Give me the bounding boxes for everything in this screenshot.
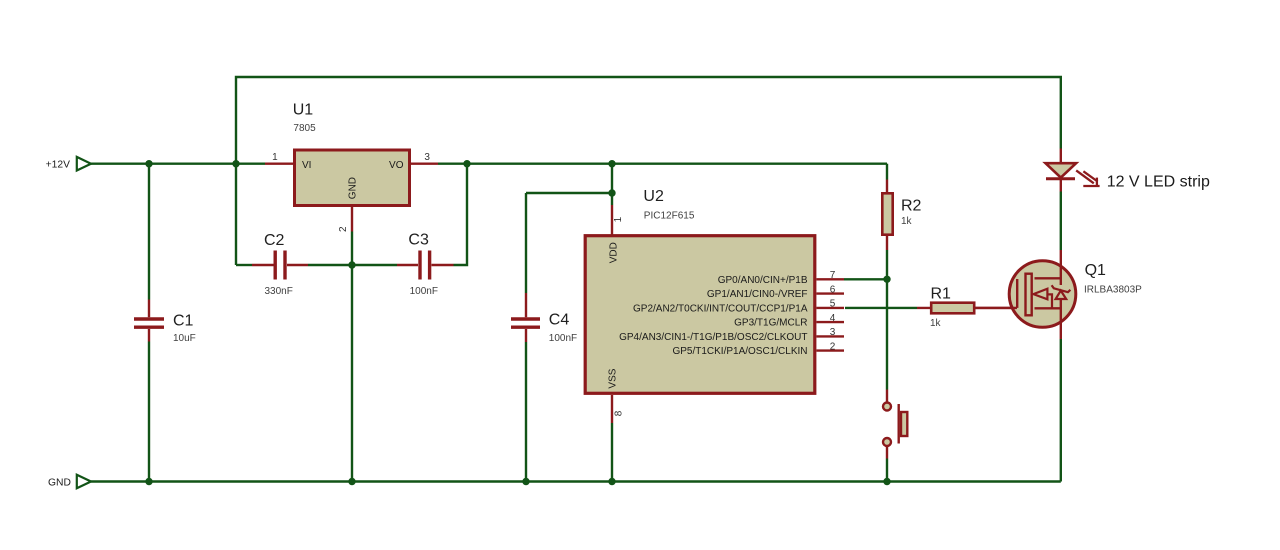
wire Q1 source to ground rail	[1060, 339, 1062, 482]
svg-text:GND: GND	[348, 177, 359, 199]
svg-text:VO: VO	[389, 160, 404, 171]
svg-text:1: 1	[613, 216, 624, 222]
node junction +12V x C1	[145, 160, 152, 167]
regulator U1 body	[295, 150, 410, 206]
wire top rail from left vertical to LED drop	[236, 77, 1061, 265]
wire GP2 to R1	[845, 307, 917, 309]
svg-text:2: 2	[830, 341, 836, 352]
pin U2.3 GP4	[817, 335, 845, 337]
node junction gnd rail x VSS	[608, 478, 615, 485]
wire ground rail	[91, 480, 1061, 482]
pin U2.8 VSS	[611, 395, 613, 423]
svg-text:3: 3	[424, 152, 430, 163]
svg-text:VSS: VSS	[608, 368, 619, 388]
wire C1 bottom	[148, 342, 150, 482]
terminal GND	[77, 475, 91, 489]
wire R2 bottom to node	[886, 250, 888, 279]
node junction VDD x C4	[608, 189, 615, 196]
led D1	[1046, 163, 1077, 191]
wire +12V rail	[91, 162, 265, 164]
svg-text:Q1: Q1	[1085, 262, 1106, 279]
wire GP0 to R2 node	[844, 278, 887, 280]
pin U1.3 VO	[411, 162, 438, 164]
svg-text:GND: GND	[48, 478, 71, 489]
node junction gnd rail x C4	[522, 478, 529, 485]
pin U2.5 GP2	[817, 307, 845, 309]
wire C1 top	[148, 164, 150, 300]
wire C2 to gnd-pin node	[308, 264, 352, 266]
wire 5V right vertical down to C3 row	[454, 164, 468, 265]
pin U1.2 GND	[351, 207, 353, 232]
pin U1.1 VI	[265, 162, 293, 164]
svg-text:6: 6	[830, 284, 836, 295]
pin U2.7 GP0	[817, 278, 845, 280]
svg-text:4: 4	[830, 313, 836, 324]
node junction 5V x VDD branch	[608, 160, 615, 167]
svg-text:R2: R2	[901, 197, 922, 214]
svg-text:GP0/AN0/CIN+/P1B: GP0/AN0/CIN+/P1B	[718, 275, 808, 286]
wire C4 bottom to ground rail	[525, 342, 527, 482]
svg-text:GP4/AN3/CIN1-/T1G/P1B/OSC2/CLK: GP4/AN3/CIN1-/T1G/P1B/OSC2/CLKOUT	[619, 332, 807, 343]
wire C4 horizontal	[526, 192, 612, 194]
wire U1 pin2 to C2 row	[351, 232, 353, 266]
capacitor C2	[252, 251, 308, 280]
wire node down to switch	[886, 279, 888, 389]
node junction GP0 x R2 bottom	[883, 276, 890, 283]
wire VSS to ground rail	[611, 423, 613, 482]
capacitor C3	[397, 251, 454, 280]
svg-text:PIC12F615: PIC12F615	[644, 210, 695, 221]
svg-text:+12V: +12V	[46, 159, 70, 170]
pin U2.6 GP1	[817, 292, 845, 294]
node junction C2 row x U1 gnd	[348, 261, 355, 268]
wire VO to node	[438, 162, 887, 164]
mcu U2 body	[585, 236, 815, 394]
svg-text:1k: 1k	[901, 216, 913, 227]
svg-text:U2: U2	[643, 188, 664, 205]
capacitor C1	[134, 300, 164, 342]
svg-text:C3: C3	[408, 231, 429, 248]
svg-text:IRLBA3803P: IRLBA3803P	[1084, 284, 1142, 295]
led arrows	[1076, 170, 1099, 186]
svg-text:U1: U1	[293, 102, 314, 119]
svg-text:1k: 1k	[930, 318, 942, 329]
svg-text:10uF: 10uF	[173, 333, 196, 344]
svg-text:100nF: 100nF	[410, 286, 438, 297]
wire LED cathode to Q1 drain	[1060, 192, 1062, 251]
svg-text:C4: C4	[549, 311, 570, 328]
svg-text:R1: R1	[931, 286, 952, 303]
svg-text:7805: 7805	[293, 123, 316, 134]
LED anode lead	[1060, 149, 1062, 164]
svg-text:C2: C2	[264, 232, 285, 249]
node junction VO x right vertical	[463, 160, 470, 167]
transistor Q1	[976, 250, 1076, 339]
wire C2 row left	[236, 264, 252, 266]
wire U1 gnd down to ground rail	[351, 265, 353, 482]
svg-text:GP3/T1G/MCLR: GP3/T1G/MCLR	[734, 318, 807, 329]
pin U2.4 GP3	[817, 321, 845, 323]
node junction +12V x left vertical	[232, 160, 239, 167]
wire 5V to R2 top	[886, 164, 888, 180]
svg-text:GP1/AN1/CIN0-/VREF: GP1/AN1/CIN0-/VREF	[707, 289, 808, 300]
svg-text:3: 3	[830, 327, 836, 338]
pushbutton	[883, 390, 907, 459]
node junction gnd rail x U1 gnd	[348, 478, 355, 485]
capacitor C4	[511, 293, 540, 342]
wire node to C3	[352, 264, 397, 266]
svg-text:VDD: VDD	[608, 242, 619, 263]
svg-text:5: 5	[830, 299, 836, 310]
svg-text:C1: C1	[173, 313, 194, 330]
svg-text:1: 1	[272, 152, 278, 163]
svg-text:8: 8	[613, 410, 624, 416]
node junction gnd rail x C1	[145, 478, 152, 485]
svg-text:330nF: 330nF	[265, 286, 293, 297]
pin U2.1 VDD	[611, 205, 613, 235]
wire C4 top vertical	[525, 193, 527, 293]
terminal +12V	[77, 157, 91, 171]
pin U2.2 GP5	[817, 349, 845, 351]
resistor R1	[917, 303, 1017, 314]
node junction gnd rail x switch	[883, 478, 890, 485]
svg-text:12 V LED strip: 12 V LED strip	[1107, 174, 1210, 191]
resistor R2	[882, 180, 892, 251]
svg-text:100nF: 100nF	[549, 333, 577, 344]
svg-text:GP5/T1CKI/P1A/OSC1/CLKIN: GP5/T1CKI/P1A/OSC1/CLKIN	[672, 346, 807, 357]
svg-text:GP2/AN2/T0CKI/INT/COUT/CCP1/P1: GP2/AN2/T0CKI/INT/COUT/CCP1/P1A	[633, 303, 808, 314]
wire VDD branch vertical	[611, 164, 613, 205]
svg-text:VI: VI	[302, 160, 311, 171]
wire switch to ground rail	[886, 459, 888, 482]
svg-text:7: 7	[830, 270, 836, 281]
svg-text:2: 2	[338, 226, 349, 232]
